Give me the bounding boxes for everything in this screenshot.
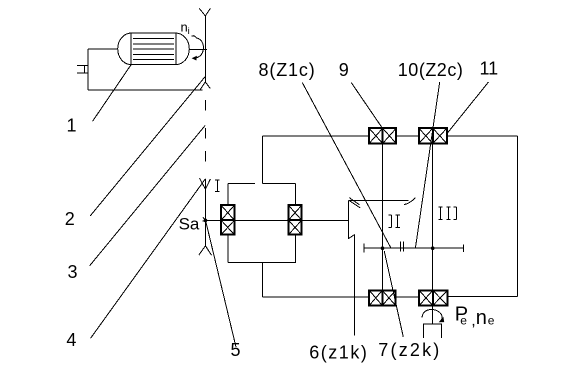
left gear unit frame: [228, 136, 296, 297]
svg-text:n: n: [476, 307, 487, 329]
leader 4: [91, 179, 206, 338]
svg-text:e: e: [460, 314, 467, 328]
input axis line: [199, 8, 210, 89]
output shaft stub: [432, 306, 434, 325]
svg-text:e: e: [488, 314, 495, 328]
countershaft vertical (left): [381, 144, 383, 291]
svg-text:2: 2: [65, 209, 75, 229]
clutch / brake band at shaft II left: [348, 198, 415, 239]
leader 11: [447, 82, 489, 134]
svg-text:4: 4: [66, 330, 76, 350]
gear pair z2k (bottom-right): [419, 290, 447, 305]
leader 10: [416, 82, 440, 247]
label II: [389, 215, 400, 227]
label III: [439, 207, 457, 220]
shaft II / III middle: [364, 242, 463, 253]
gear pair G2 on shaft I (right): [288, 205, 301, 235]
countershaft vertical (right): [432, 144, 434, 291]
gear pair G1 on shaft I (left): [221, 205, 234, 235]
leader 2: [90, 76, 205, 216]
gear pair Z1c (top-left): [369, 128, 396, 143]
leader 7: [384, 251, 403, 337]
engine E (component 1): [118, 33, 190, 65]
svg-text:11: 11: [480, 59, 499, 79]
rotation arrow n_i: [192, 36, 204, 61]
leader 9: [351, 83, 382, 129]
leader 6 with bend: [348, 235, 354, 336]
leader 8: [302, 82, 390, 247]
svg-text:1: 1: [67, 116, 77, 136]
svg-text:6(z1k): 6(z1k): [309, 343, 368, 363]
svg-text:Sa: Sa: [179, 214, 200, 233]
leader 1: [93, 64, 132, 121]
gear pair Z2c (top-right): [419, 128, 447, 143]
leader 3: [90, 125, 206, 265]
label I: [215, 180, 219, 192]
node Sa junction: [202, 218, 207, 223]
engine mount frame: [88, 49, 203, 90]
svg-text:3: 3: [68, 262, 78, 282]
axis dashed centerline: [204, 100, 206, 162]
shaft I input segment: [199, 178, 212, 255]
bottom line of housing: [262, 296, 419, 298]
svg-text:9: 9: [339, 60, 349, 80]
svg-text:i: i: [188, 26, 190, 37]
engine mount bracket: [77, 66, 88, 73]
right housing rectangle: [448, 136, 518, 296]
svg-text:7(z2k): 7(z2k): [378, 340, 441, 360]
output rotation arrow Pe,ne: [422, 309, 444, 322]
svg-text:5: 5: [231, 340, 241, 360]
output flange bracket: [424, 324, 442, 338]
top line of gearbox housing: [262, 135, 517, 137]
gear pair z1k (bottom-left): [369, 290, 395, 305]
leader 5: [206, 221, 236, 347]
svg-text:10(Z2c): 10(Z2c): [398, 60, 464, 80]
shaft I: [205, 219, 348, 222]
engine output shaft: [189, 48, 207, 50]
svg-text:8(Z1c): 8(Z1c): [259, 60, 316, 80]
